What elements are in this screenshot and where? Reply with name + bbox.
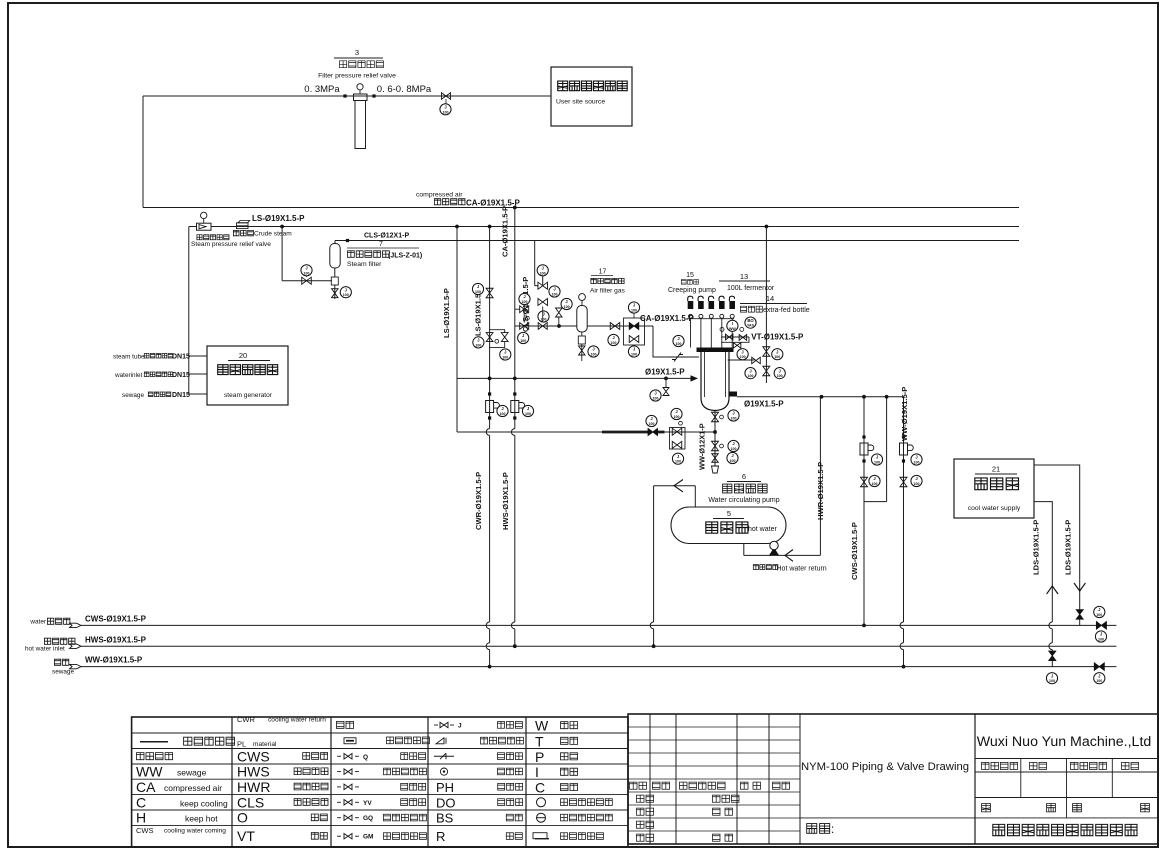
node: V17 joins WW: [902, 665, 906, 669]
hot water tank (5): [671, 507, 786, 544]
sample valve on tee: [663, 388, 669, 396]
flange squares on filter inlet/outlet: [343, 94, 346, 97]
svg-text:Q: Q: [363, 754, 368, 761]
node: CA-V7: [513, 206, 517, 210]
svg-text:100: 100: [541, 318, 547, 322]
wire: cluster column h drop: [558, 317, 560, 326]
gauge below V6 bypass: [500, 349, 511, 360]
gauge right of drain-1: [728, 410, 739, 421]
valve on H5: [302, 277, 312, 284]
rotameter on V6: [488, 392, 491, 395]
wire: LDS return (bottom port): [1034, 502, 1052, 622]
svg-text:100: 100: [343, 293, 349, 297]
svg-text:R: R: [436, 829, 445, 844]
svg-text:CWS: CWS: [237, 748, 270, 764]
wire: V6 drop (CWR): [489, 227, 491, 429]
gauge right of V17 rotameter: [911, 454, 922, 465]
svg-text:100: 100: [443, 110, 449, 114]
title block revision labels: [630, 782, 647, 789]
svg-text:YAS: YAS: [747, 324, 755, 328]
drain valve under steam filter: [332, 289, 339, 298]
indicator cluster c: [526, 316, 530, 320]
wire: CWS bottom line: [81, 624, 1116, 626]
title: NYM-100 Piping & Valve Drawing: [800, 817, 975, 819]
svg-text:LDS-Ø19X1.5-P: LDS-Ø19X1.5-P: [1064, 520, 1073, 575]
gauge right of drain-3: [727, 452, 738, 463]
node H7-V7: [513, 377, 517, 381]
filled valve on CWS right: [1096, 622, 1106, 630]
svg-text:extra-fed bottle: extra-fed bottle: [763, 307, 810, 314]
svg-text:O: O: [237, 810, 248, 826]
label: crude steam: [233, 230, 253, 235]
wire: WW bottom line: [81, 666, 1116, 668]
wire: V17 WW vertical: [903, 397, 905, 622]
svg-text:100: 100: [475, 343, 481, 347]
arrow down on LDS out: [1074, 583, 1085, 591]
svg-text:DO: DO: [436, 795, 456, 810]
svg-text:hot water: hot water: [748, 526, 777, 533]
steam filter JLS-Z-01 capsule: [334, 241, 336, 244]
gauge on steam pressure relief valve: [203, 219, 205, 224]
svg-text:keep cooling: keep cooling: [180, 798, 228, 808]
gauge at steam filter drain: [340, 287, 351, 298]
gauge right of V17 valve: [911, 475, 922, 486]
gauge at sample tee: [650, 390, 661, 401]
svg-text:waterinlet: waterinlet: [114, 372, 143, 379]
steam pressure relief valve body: [197, 223, 212, 230]
svg-text:CWS: CWS: [136, 826, 154, 835]
gauge right of V15 valve: [869, 475, 880, 486]
svg-text:7: 7: [379, 241, 383, 248]
wire: H6 corner to vessel nozzle: [653, 326, 699, 357]
arrow on tank inlet: [674, 480, 683, 492]
svg-text:CLS-Ø12X1-P: CLS-Ø12X1-P: [364, 233, 409, 240]
node: V11 joins HWS: [652, 644, 656, 648]
svg-text:21: 21: [992, 465, 1000, 474]
svg-text:GM: GM: [363, 834, 373, 841]
gauge right of V15 rotameter: [871, 454, 882, 465]
arrow hot water return: [785, 550, 793, 562]
gauges at CWS right valve: [1094, 606, 1105, 617]
gauge above valve H5: [306, 276, 308, 278]
node H8-HWR: [820, 395, 824, 399]
svg-text:100: 100: [611, 341, 617, 345]
gauge left of V6 bypass: [473, 337, 484, 348]
svg-text:0. 6-0. 8MPa: 0. 6-0. 8MPa: [377, 84, 432, 95]
svg-text:13: 13: [740, 272, 748, 281]
svg-text:YV: YV: [363, 800, 372, 807]
svg-text:compressed air: compressed air: [164, 783, 222, 793]
valve on H9 left (closed): [648, 429, 658, 436]
svg-text:14: 14: [766, 294, 774, 303]
label: hot water return: [753, 565, 778, 570]
node H8-V16: [885, 395, 889, 399]
svg-text:BO: BO: [747, 318, 754, 323]
gauge row mid: [737, 349, 748, 360]
rotameter on V7: [513, 392, 516, 395]
svg-text:100: 100: [552, 293, 558, 297]
node: LS to condensate drop V3: [280, 225, 284, 229]
svg-text:CWR: CWR: [237, 715, 255, 724]
valve on H1: [442, 93, 451, 100]
gauge on air filter top: [581, 300, 583, 306]
svg-text:100: 100: [675, 460, 681, 464]
valve cluster b: [520, 306, 529, 313]
svg-text:cooling water coming: cooling water coming: [164, 828, 226, 835]
svg-text:100: 100: [1096, 613, 1102, 617]
valve cluster d: [520, 323, 529, 330]
valve VT-a: [725, 334, 733, 340]
wire: V7 drop (CA then HWS): [514, 208, 516, 429]
svg-text:CA-Ø19X1.5-P: CA-Ø19X1.5-P: [640, 314, 694, 323]
legend col1 rows: [140, 741, 168, 743]
svg-text:17: 17: [599, 269, 607, 276]
svg-text:20: 20: [239, 351, 247, 360]
svg-text:NYM-100 Piping & Valve Drawin: NYM-100 Piping & Valve Drawing: [801, 761, 969, 773]
creeping pumps (5x): [688, 301, 694, 309]
wire: H5 to steam filter drain: [282, 280, 332, 282]
svg-text:Ø19X1.5-P: Ø19X1.5-P: [645, 368, 685, 377]
valve cluster f: [538, 323, 547, 330]
gauge at air filter drain: [588, 346, 599, 357]
svg-text:100: 100: [1049, 679, 1055, 683]
wire: H7 inoculation line: [457, 377, 697, 379]
svg-text:100: 100: [649, 422, 655, 426]
air filter drain pot: [581, 332, 583, 336]
wire: H6 air line to vessel: [587, 325, 653, 327]
svg-text:100: 100: [874, 461, 880, 465]
svg-text:C: C: [136, 794, 146, 810]
svg-text:100: 100: [731, 447, 737, 451]
rotameter on V17: [902, 435, 905, 438]
svg-text:HWR: HWR: [237, 779, 270, 795]
svg-text:Wuxi Nuo Yun Machine.,Ltd: Wuxi Nuo Yun Machine.,Ltd: [977, 734, 1152, 750]
valve VT-d: [752, 357, 761, 364]
svg-text:LS-Ø19X1.5-P: LS-Ø19X1.5-P: [252, 214, 305, 223]
wire: creeping pump manifold: [687, 318, 734, 320]
flange on CLS at steam filter: [346, 239, 349, 242]
svg-text:Steam filter: Steam filter: [347, 261, 382, 268]
svg-text:100: 100: [653, 397, 659, 401]
gauge above CA pair: [633, 313, 635, 318]
svg-text:T: T: [535, 733, 544, 749]
svg-text:Crude steam: Crude steam: [254, 231, 292, 238]
svg-text:6: 6: [742, 472, 746, 481]
svg-text:CA: CA: [136, 779, 156, 795]
svg-text:100: 100: [591, 353, 597, 357]
svg-text:W: W: [535, 718, 549, 734]
svg-text:15: 15: [686, 272, 694, 279]
wire: V3 drop: [281, 227, 283, 281]
label: CA pipe code (CJK+text): [434, 199, 465, 205]
gauge left of V6 valve: [472, 283, 483, 294]
valve drain-3: [712, 454, 719, 463]
wire: cluster verticals: [523, 305, 525, 323]
title block right part: [974, 714, 976, 844]
wire: VT jog: [721, 337, 749, 342]
valve on V10 upper: [763, 347, 770, 357]
svg-text:3: 3: [355, 48, 359, 57]
svg-text:100: 100: [731, 417, 737, 421]
svg-text:(JLS-Z-01): (JLS-Z-01): [388, 253, 422, 260]
gauge cluster e: [518, 332, 529, 343]
wire: VT line: [721, 336, 749, 338]
wire: V10 LS drop to fermentor: [765, 225, 769, 229]
indicator in V6 bypass: [495, 339, 499, 343]
svg-text:CWS-Ø19X1.5-P: CWS-Ø19X1.5-P: [85, 615, 147, 624]
svg-text:P: P: [535, 749, 544, 765]
svg-text:hot water inlet: hot water inlet: [25, 646, 65, 653]
legend: pipeline code header: [137, 753, 173, 760]
wire: tank inlet loop: [654, 485, 696, 487]
svg-text:User site source: User site source: [556, 99, 605, 106]
wire: CA header H2: [143, 207, 1019, 209]
gauge on filter F1: [359, 90, 361, 95]
svg-text:100: 100: [914, 461, 920, 465]
svg-text:C: C: [535, 779, 545, 795]
node: V7 joins HWS line: [513, 644, 517, 648]
svg-text:material: material: [253, 741, 277, 748]
gauge pair top: [727, 320, 738, 331]
svg-text:100: 100: [914, 482, 920, 486]
svg-text:0. 3MPa: 0. 3MPa: [304, 84, 340, 95]
svg-text:cooling water return: cooling water return: [268, 717, 326, 724]
svg-text:water: water: [29, 619, 46, 626]
gauge below WW right valve: [1094, 673, 1105, 684]
gauge lower cluster a: [519, 293, 530, 304]
svg-text:Hot water return: Hot water return: [777, 566, 827, 573]
gauge above H9 valve: [646, 415, 657, 426]
CA control valve pair box: [624, 318, 645, 345]
valve on V6: [486, 288, 493, 298]
svg-text:cool water supply: cool water supply: [968, 505, 1021, 512]
filter F1 (pressure relief filter) body: [354, 94, 368, 101]
V6 bypass loop with valves: [486, 333, 493, 342]
svg-text:100: 100: [674, 415, 680, 419]
steam filter drain pot: [331, 277, 338, 285]
valve CLS-2: [538, 299, 548, 306]
valve cluster h: [556, 308, 563, 317]
svg-text:DN15: DN15: [172, 372, 190, 379]
svg-text:100: 100: [676, 342, 682, 346]
label: material: [807, 824, 830, 834]
svg-text:100: 100: [872, 482, 878, 486]
node drain-H9: [713, 430, 717, 434]
svg-text:steam tube: steam tube: [113, 354, 145, 361]
label: hot water inlet / HWS code: [44, 638, 75, 644]
wire: HWS bottom line: [81, 645, 1116, 647]
svg-text:sewage: sewage: [122, 392, 144, 399]
wire: VT row mid: [728, 359, 755, 361]
svg-text:WW-Ø12X1-P: WW-Ø12X1-P: [698, 423, 707, 470]
valve drain-1: [712, 412, 719, 422]
svg-text:Filter pressure relief valve: Filter pressure relief valve: [318, 73, 396, 80]
gauge cluster mid: [538, 311, 549, 322]
svg-text:100: 100: [777, 374, 783, 378]
node H7-V6: [488, 377, 492, 381]
gauge above right: [671, 408, 682, 419]
VT cluster small circles: [720, 327, 724, 331]
label: sewage / WW code: [54, 659, 68, 665]
svg-text:VT-Ø19X1.5-P: VT-Ø19X1.5-P: [751, 333, 804, 342]
valve on H6: [610, 323, 620, 330]
entry flag CWS: [70, 623, 82, 627]
svg-text:I: I: [732, 321, 733, 326]
svg-text:Steam pressure relief valve: Steam pressure relief valve: [191, 241, 271, 248]
svg-text:VT: VT: [237, 828, 255, 844]
gauge under valve H6: [608, 334, 619, 345]
sheet count row: [1066, 798, 1068, 818]
svg-text:H: H: [136, 810, 146, 826]
svg-text:HWS-Ø19X1.5-P: HWS-Ø19X1.5-P: [85, 636, 147, 645]
svg-text:100: 100: [540, 271, 546, 275]
label: filter pressure relief valve (CJK): [340, 61, 384, 68]
wire: HWR riser V14: [819, 397, 821, 556]
valve on V10 lower: [763, 366, 770, 376]
svg-text:100: 100: [730, 459, 736, 463]
svg-text:WW: WW: [729, 327, 736, 331]
svg-text:100: 100: [631, 309, 637, 313]
drawing header cells: [1020, 759, 1022, 798]
svg-text:100L fermentor: 100L fermentor: [727, 285, 775, 292]
svg-text:100: 100: [525, 412, 531, 416]
node: V6 joins WW line: [488, 665, 492, 669]
svg-text:CWR-Ø19X1.5-P: CWR-Ø19X1.5-P: [474, 472, 483, 530]
svg-text:Water circulating pump: Water circulating pump: [708, 497, 779, 504]
svg-text:CA-Ø19X1.5-P: CA-Ø19X1.5-P: [501, 206, 510, 257]
svg-text:PH: PH: [436, 780, 454, 795]
label: user site source (CJK): [558, 81, 628, 91]
vessel right nozzle flange: [729, 392, 737, 397]
gauge cluster g: [561, 298, 572, 309]
node: H7 sample tee: [664, 377, 668, 381]
valve on V17: [900, 477, 907, 487]
legend col3 symbol column: [337, 721, 354, 728]
svg-text:100: 100: [631, 353, 637, 357]
svg-text:HWR-Ø19X1.5-P: HWR-Ø19X1.5-P: [816, 462, 825, 520]
wire: V2 steam generator riser: [188, 227, 190, 395]
svg-text:keep hot: keep hot: [185, 814, 218, 824]
svg-text:steam generator: steam generator: [224, 392, 273, 399]
valve on LDS out: [1076, 610, 1083, 620]
entry flag HWS: [70, 644, 82, 648]
svg-text:100: 100: [475, 290, 481, 294]
svg-text:100: 100: [1098, 638, 1104, 642]
svg-text:compressed air: compressed air: [416, 192, 463, 199]
svg-text::: :: [831, 824, 834, 836]
label: steam pressure relief valve: [197, 235, 229, 240]
svg-text:CLS: CLS: [237, 794, 264, 810]
gauge above valve column: [537, 265, 548, 276]
svg-text:Ø19X1.5-P: Ø19X1.5-P: [744, 400, 784, 409]
gauge row low: [745, 368, 756, 379]
svg-text:BS: BS: [436, 811, 454, 826]
svg-text:PL: PL: [237, 739, 246, 748]
wire: H9 utility line: [457, 431, 715, 433]
H9 heavy segment: [602, 431, 648, 434]
wire: H8 harvest line: [737, 396, 904, 398]
gauge right of V6 rotameter: [497, 405, 508, 416]
svg-text:CWS-Ø19X1.5-P: CWS-Ø19X1.5-P: [850, 522, 859, 580]
valve on LDS return: [1049, 651, 1056, 661]
node H8-CWS: [862, 395, 866, 399]
svg-text:I: I: [535, 764, 539, 780]
svg-text:100: 100: [522, 300, 528, 304]
label: cool water machine (CJK): [975, 478, 1019, 490]
svg-text:HWS-Ø19X1.5-P: HWS-Ø19X1.5-P: [501, 472, 510, 530]
label: steam generator (CJK): [218, 365, 278, 375]
wire: CLS drop V8: [534, 241, 536, 286]
H9 valve pair box: [670, 428, 686, 450]
valve VT-c: [733, 343, 741, 349]
steam generator box (20): [207, 346, 288, 405]
wire: vessel bottom drain V: [714, 411, 716, 467]
sterile break symbol: [669, 353, 686, 362]
svg-text:100: 100: [520, 339, 526, 343]
filled valve on WW right: [1094, 663, 1104, 671]
gauge right of valve column: [549, 286, 560, 297]
svg-text:100: 100: [502, 356, 508, 360]
svg-text:100: 100: [774, 355, 780, 359]
svg-text:100: 100: [500, 412, 506, 416]
gauge below H9 pair: [672, 453, 683, 464]
wire: LDS out (right port): [1034, 465, 1080, 610]
node: V15 joins CWS: [862, 624, 866, 628]
valve CLS-1: [538, 282, 548, 289]
svg-text:WW: WW: [136, 764, 163, 780]
gauge below CA pair: [628, 346, 639, 357]
svg-text:100: 100: [1096, 679, 1102, 683]
svg-text:100: 100: [748, 374, 754, 378]
air filter gas capsule (17): [581, 326, 583, 332]
air filter drain valve: [579, 346, 586, 355]
label: hot water tank (CJK): [706, 522, 748, 533]
gauge right of drain-2: [728, 440, 739, 451]
wire: V11 from tank loop down: [653, 486, 655, 622]
wire: main air line H6 start: [515, 325, 577, 327]
svg-text:LDS-Ø19X1.5-P: LDS-Ø19X1.5-P: [1032, 520, 1041, 575]
legend col4: [434, 724, 438, 726]
valve drain-2: [712, 441, 719, 451]
wire: left drop V1: [142, 96, 144, 208]
svg-text:sewage: sewage: [177, 768, 207, 778]
steam generator nozzle stubs: [189, 355, 207, 357]
entry flag WW: [70, 664, 82, 668]
svg-text:J: J: [458, 723, 462, 730]
svg-text:GQ: GQ: [363, 815, 373, 822]
svg-text:100: 100: [740, 355, 746, 359]
wire: tank outlet to pump: [743, 544, 745, 556]
svg-text:LS-Ø19X1.5-P: LS-Ø19X1.5-P: [442, 288, 451, 338]
gauge above break: [673, 335, 684, 346]
crude steam strainer symbol: [237, 223, 249, 229]
node: LS-V6: [488, 225, 492, 229]
wire: V5 drop LS: [456, 227, 458, 433]
instrument circle under valve H1: [445, 99, 447, 104]
user site source box: [551, 67, 632, 126]
rotameter on V15: [862, 435, 865, 438]
svg-text:5: 5: [727, 509, 731, 518]
gauge below LDS return: [1046, 673, 1057, 684]
svg-text:HWS: HWS: [237, 764, 270, 780]
wire: CLS header H4: [335, 240, 1019, 242]
svg-text:DN15: DN15: [172, 354, 190, 361]
company name chinese: [993, 824, 1137, 835]
svg-text:WW-Ø19X1.5-P: WW-Ø19X1.5-P: [900, 387, 909, 441]
valve VT-b: [739, 335, 747, 341]
wire: V15 CWS vertical: [863, 397, 865, 626]
svg-text:CA-Ø19X1.5-P: CA-Ø19X1.5-P: [466, 198, 520, 207]
